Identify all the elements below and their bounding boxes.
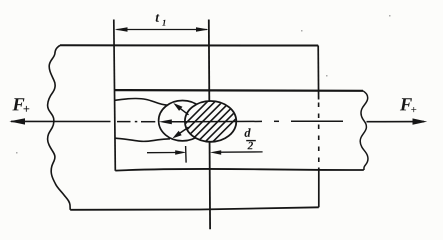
left plate bottom edge: [70, 207, 319, 210]
rivet (hatched circle): [163, 96, 259, 146]
d/2 dimension left line: [147, 152, 176, 154]
right plate bottom edge: [115, 169, 363, 171]
d/2 extension tick: [185, 146, 188, 163]
right plate left end edge with t1 extension line: [114, 20, 116, 171]
left plate right edge lower solid part: [318, 168, 320, 208]
left plate right edge hidden dashed part: [318, 103, 320, 167]
d/2 left arrowhead: [175, 150, 186, 155]
hole top deformation wavy line: [115, 98, 168, 105]
deformed hole (ellipse): [159, 101, 207, 141]
bearing pressure arrow A (upper): [173, 103, 188, 115]
t1 right arrowhead: [196, 27, 209, 32]
right plate top edge: [115, 89, 363, 92]
hole bottom deformation wavy line: [115, 138, 170, 141]
horizontal centerline (dash-dot): [117, 120, 343, 123]
left plate right edge upper solid part: [317, 46, 319, 100]
right force arrow: [367, 118, 428, 124]
right force label F+: [400, 98, 416, 112]
scan specks: [16, 15, 391, 154]
bearing pressure arrow B (middle): [159, 119, 187, 124]
left force arrow: [9, 118, 110, 124]
rivet axis line: [209, 20, 210, 230]
d/2 right arrowhead: [210, 150, 221, 155]
right plate right break edge (wavy): [360, 91, 368, 170]
t1 left arrowhead: [115, 27, 128, 32]
d/2 fraction label: [245, 128, 254, 149]
left plate left break edge (wavy): [48, 45, 71, 210]
t1 dimension line: [117, 29, 208, 31]
bearing pressure arrow C (lower): [172, 127, 188, 138]
d/2 fraction bar: [246, 140, 256, 142]
d/2 dimension right line: [221, 151, 263, 153]
left plate top edge: [60, 44, 318, 46]
t1 label: [156, 14, 166, 26]
left force label F+: [12, 98, 29, 112]
